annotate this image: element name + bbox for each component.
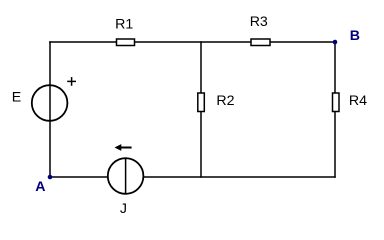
svg-text:R1: R1 bbox=[115, 16, 133, 32]
svg-text:E: E bbox=[12, 90, 21, 106]
svg-text:A: A bbox=[35, 179, 45, 195]
svg-text:B: B bbox=[350, 28, 360, 44]
svg-text:R4: R4 bbox=[349, 93, 367, 109]
svg-text:J: J bbox=[120, 201, 127, 217]
svg-text:R2: R2 bbox=[216, 93, 234, 109]
svg-text:R3: R3 bbox=[250, 14, 268, 30]
